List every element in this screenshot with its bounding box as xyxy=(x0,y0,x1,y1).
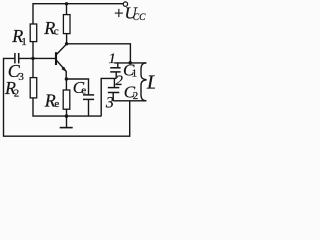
svg-text:L: L xyxy=(146,71,155,93)
svg-text:2: 2 xyxy=(115,73,123,89)
svg-text:1: 1 xyxy=(132,68,138,80)
svg-text:2: 2 xyxy=(14,88,19,100)
svg-text:e: e xyxy=(81,84,86,96)
svg-text:CC: CC xyxy=(133,13,146,23)
svg-text:3: 3 xyxy=(18,71,24,83)
svg-text:e: e xyxy=(54,98,59,110)
svg-text:c: c xyxy=(54,26,59,38)
svg-text:2: 2 xyxy=(133,90,139,102)
svg-text:1: 1 xyxy=(108,51,116,67)
svg-text:3: 3 xyxy=(105,95,114,112)
svg-text:1: 1 xyxy=(21,36,27,48)
